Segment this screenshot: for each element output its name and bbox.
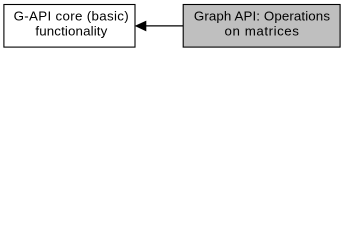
- edge shaft (dependency arrow): [146, 25, 184, 27]
- svg-text:Graph API: Operations: Graph API: Operations: [194, 9, 330, 24]
- node box (current, grey): Graph API: Operations on matrices: [183, 5, 340, 48]
- svg-text:functionality: functionality: [35, 23, 107, 38]
- svg-text:G-API core (basic): G-API core (basic): [14, 9, 129, 24]
- edge arrowhead: [136, 21, 146, 30]
- background: [0, 0, 344, 52]
- node box: G-API core (basic) functionality: [4, 5, 135, 48]
- svg-text:on matrices: on matrices: [225, 23, 300, 38]
